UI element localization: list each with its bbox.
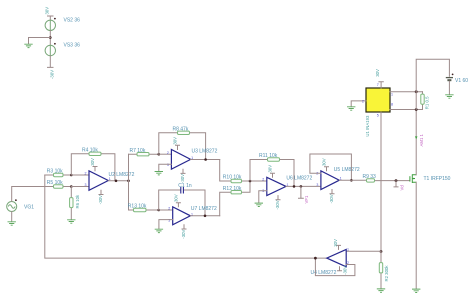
supply stub top U5 <box>325 167 329 171</box>
ground U1 left <box>347 107 355 110</box>
transistor T1 IRFP150 <box>410 174 417 183</box>
node U5 feedback output <box>350 179 353 182</box>
supply stub bottom U2 <box>99 190 103 194</box>
svg-text:VG1: VG1 <box>24 205 34 211</box>
node shunt top <box>415 90 418 93</box>
svg-text:C1 1n: C1 1n <box>178 183 192 189</box>
resistor R2 300k <box>379 252 382 289</box>
svg-text:3: 3 <box>168 218 170 222</box>
svg-text:U5 LM8272: U5 LM8272 <box>334 167 360 173</box>
svg-text:30V: 30V <box>375 69 380 77</box>
wire U3 out down to R10 <box>220 160 231 182</box>
svg-text:-30V: -30V <box>180 174 185 183</box>
wire R7 to U3 <box>159 153 172 155</box>
svg-text:1: 1 <box>391 93 393 97</box>
node R11 at U6 output <box>293 185 296 188</box>
supply stub bottom U3 <box>181 169 185 173</box>
probe VF1 stub <box>299 186 304 198</box>
svg-text:R2 300k: R2 300k <box>384 265 389 282</box>
svg-text:5: 5 <box>377 114 379 118</box>
node R7 U3 input <box>158 153 161 156</box>
wire T1 drain vertical <box>415 110 417 175</box>
svg-text:-30V: -30V <box>181 229 186 238</box>
svg-text:U3 LM8272: U3 LM8272 <box>192 149 218 155</box>
svg-text:VF1: VF1 <box>304 195 309 203</box>
svg-text:R12 10k: R12 10k <box>223 186 242 192</box>
svg-text:-30V: -30V <box>329 194 334 203</box>
node shunt bottom <box>415 108 418 111</box>
node U4 output <box>314 257 317 260</box>
svg-text:R1 0.5: R1 0.5 <box>425 96 430 109</box>
svg-text:U1 INA193: U1 INA193 <box>365 115 370 137</box>
wire feedback from U4 output <box>45 175 327 258</box>
wire R13 to U7 <box>159 209 173 211</box>
svg-text:2: 2 <box>168 207 170 211</box>
op-amp U6 <box>267 177 286 195</box>
node summing <box>249 180 252 183</box>
resistor R6 to ground <box>70 187 73 220</box>
probe Vd stub magenta <box>394 181 398 187</box>
resistor R13 <box>129 208 159 211</box>
resistor R12 <box>231 181 250 194</box>
wire VG1 to ground <box>11 212 13 222</box>
resistor R3 <box>45 173 72 176</box>
svg-text:T1 IRFP150: T1 IRFP150 <box>424 176 451 182</box>
svg-text:U2 LM8272: U2 LM8272 <box>109 172 135 178</box>
ground T1 source <box>412 289 420 292</box>
node U2 output R4 <box>115 180 118 183</box>
svg-text:R3 10k: R3 10k <box>47 169 63 175</box>
svg-text:V1 60: V1 60 <box>455 78 468 84</box>
svg-text:3: 3 <box>316 183 318 187</box>
junction supply midpoint <box>49 36 52 39</box>
op-amp U1 INA block <box>366 88 390 112</box>
wire U5 output to R9 <box>339 179 366 181</box>
wire VS2 to VS3 <box>49 31 51 46</box>
svg-text:R13 10k: R13 10k <box>128 204 147 210</box>
supply stub top U4 <box>337 245 341 249</box>
wire U3 output <box>191 159 220 161</box>
svg-text:R6 10k: R6 10k <box>75 194 80 208</box>
node U2 output branch <box>127 180 130 183</box>
op-amp U2 <box>89 171 108 191</box>
supply stub top U3 <box>176 145 180 149</box>
svg-text:R9 33: R9 33 <box>363 174 377 180</box>
svg-text:R4 10k: R4 10k <box>82 147 98 153</box>
resistor R7 <box>129 153 159 156</box>
node U2 non-inverting input <box>70 185 73 188</box>
op-amp U7 <box>173 207 191 225</box>
svg-text:8: 8 <box>391 103 393 107</box>
svg-text:R5 10k: R5 10k <box>47 180 63 186</box>
ground R2 <box>377 289 385 292</box>
wire U6 non-inverting to ground <box>259 191 267 203</box>
wire U7 non-inverting to ground <box>159 220 173 229</box>
svg-text:30V: 30V <box>268 165 273 173</box>
ground supply midpoint <box>24 44 32 47</box>
svg-text:-30V: -30V <box>343 266 348 275</box>
wire U5 follower feedback <box>310 154 352 180</box>
wire V1 to ground <box>448 81 450 94</box>
svg-text:-30V: -30V <box>50 70 55 79</box>
wire branch vertical R7/R13 <box>128 154 130 210</box>
svg-text:AM1 1: AM1 1 <box>419 133 424 146</box>
svg-text:Vd: Vd <box>400 185 405 191</box>
svg-text:R7 10k: R7 10k <box>130 148 146 154</box>
wire VG1 to R5 <box>12 187 54 202</box>
op-amp U5 <box>321 171 339 190</box>
supply stub top U7 <box>176 203 180 207</box>
wire U3 non-inverting to ground <box>159 164 172 171</box>
svg-text:VS2 36: VS2 36 <box>64 18 81 24</box>
svg-text:7: 7 <box>377 83 379 87</box>
ground V1 <box>445 95 453 98</box>
resistor R11 feedback <box>250 158 294 187</box>
svg-text:-30V: -30V <box>98 195 103 204</box>
node gate probe <box>395 179 398 182</box>
ammeter AM1 arrow <box>415 136 418 139</box>
wire U1 left pin to ground <box>351 101 366 107</box>
supply stub bottom U6 <box>276 196 280 200</box>
resistor R4 feedback <box>71 152 115 181</box>
wire U4 follower feedback loop <box>315 258 355 276</box>
wire T1 source to ground <box>415 182 417 289</box>
svg-text:30V: 30V <box>333 239 338 247</box>
svg-text:2: 2 <box>167 151 169 155</box>
svg-text:VS3 36: VS3 36 <box>64 43 81 49</box>
svg-text:30V: 30V <box>173 137 178 145</box>
supply stub top U2 <box>93 167 97 171</box>
node U2 inverting input <box>70 174 73 177</box>
wire U1 bottom pin long vertical <box>380 112 382 251</box>
op-amp U3 <box>171 150 190 170</box>
wire R3 to U2 <box>71 174 89 176</box>
svg-text:2: 2 <box>262 178 264 182</box>
svg-text:30V: 30V <box>90 158 95 166</box>
wire top rail to V1 <box>416 59 449 91</box>
node +30V terminal top <box>48 16 54 20</box>
node U1 top terminal 30V <box>379 82 383 88</box>
ground U7 <box>155 229 163 232</box>
svg-text:U6 LM8272: U6 LM8272 <box>286 176 312 182</box>
node U3 output <box>204 158 207 161</box>
svg-text:2: 2 <box>85 172 87 176</box>
resistor R5 <box>54 185 72 188</box>
wire U6 output to U5 <box>286 185 321 187</box>
node U4 input R2 <box>380 250 383 253</box>
svg-text:R11 10k: R11 10k <box>259 153 278 159</box>
svg-text:1: 1 <box>347 247 349 251</box>
wire U1 right pin top <box>390 91 423 93</box>
resistor R8 feedback <box>159 131 206 159</box>
battery V1 60 <box>446 74 454 81</box>
resistor R1 shunt <box>421 92 424 110</box>
node U7 output <box>204 215 207 218</box>
ground R6 <box>67 220 75 223</box>
svg-text:30V: 30V <box>44 7 49 15</box>
supply stub bottom U7 <box>182 225 186 229</box>
resistor R9 <box>367 179 410 182</box>
wire U2 output <box>108 180 128 182</box>
wire main rail shunt <box>415 92 417 110</box>
wire U7 out up to R12 <box>220 192 231 216</box>
op-amp U4 mirrored <box>327 249 346 266</box>
svg-text:U7 LM8272: U7 LM8272 <box>191 206 217 212</box>
voltage source VS3 <box>45 43 56 56</box>
svg-text:U4 LM8272: U4 LM8272 <box>311 270 337 276</box>
wire to supply ground <box>29 38 51 45</box>
wire R5 to U2 <box>71 186 89 188</box>
voltage source VS2 <box>45 18 56 31</box>
svg-text:2: 2 <box>362 100 364 104</box>
ground U3 <box>155 172 163 175</box>
svg-text:3: 3 <box>85 183 87 187</box>
wire U4 inverting input <box>346 250 381 252</box>
node -30V terminal bottom <box>48 56 54 68</box>
supply stub bottom U5 <box>330 190 334 194</box>
svg-text:30V: 30V <box>322 158 327 166</box>
node R13 U7 input <box>157 209 160 212</box>
generator VG1 <box>7 199 17 211</box>
ground VG1 <box>8 222 16 225</box>
supply stub top U6 <box>271 173 275 177</box>
svg-text:-30V: -30V <box>275 200 280 209</box>
resistor R10 <box>231 179 267 182</box>
node probe VF1 <box>300 185 303 188</box>
capacitor C1 feedback <box>159 187 205 216</box>
wire U7 output <box>190 215 219 217</box>
svg-text:30V: 30V <box>173 194 178 202</box>
svg-text:R8 47k: R8 47k <box>173 127 189 133</box>
ground U6 <box>255 203 263 206</box>
wire U1 right pin bottom <box>390 109 423 111</box>
supply stub bottom U4 <box>338 267 342 271</box>
svg-text:R10 10k: R10 10k <box>223 175 242 181</box>
